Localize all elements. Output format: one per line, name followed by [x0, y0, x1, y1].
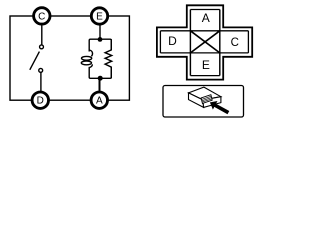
center box X diagonal 2	[190, 31, 219, 53]
wire box outline of relay internal circuit	[10, 16, 129, 100]
pin box grid horizontal top	[160, 30, 248, 32]
node junction dot bottom	[98, 76, 103, 81]
relay connector rib 2	[202, 98, 212, 101]
wire from E terminal down to node	[99, 25, 101, 39]
wire top branch bracket	[89, 39, 111, 51]
center box X diagonal 1	[190, 31, 219, 53]
wire from node down to A terminal	[99, 78, 101, 92]
pin box D left edge	[159, 31, 161, 53]
pin box grid vertical left	[189, 10, 191, 76]
connector pin-layout cross outer outline	[157, 5, 252, 79]
coil L1 loop 1	[82, 56, 92, 60]
relay connector rib 1	[202, 96, 212, 99]
switch SW1 top contact	[40, 45, 44, 49]
wire from switch down to D terminal	[40, 73, 42, 92]
wire from C terminal down to switch	[41, 25, 43, 44]
switch SW1 blade (open)	[30, 52, 40, 70]
pin box grid horizontal bottom	[160, 52, 248, 54]
coil L1 upper lead	[89, 50, 92, 56]
coil L1 loop 2	[81, 61, 91, 65]
svg-text:E: E	[96, 11, 103, 22]
relay 3D icon left face	[189, 93, 204, 108]
pin box C right edge	[247, 31, 249, 53]
svg-text:A: A	[96, 96, 103, 107]
svg-text:A: A	[202, 11, 210, 25]
coil L1 lower lead	[89, 64, 92, 68]
relay 3D icon right face	[203, 97, 221, 108]
terminal A	[91, 92, 107, 108]
resistor R1 zigzag	[105, 39, 112, 78]
svg-text:D: D	[168, 34, 177, 48]
svg-text:E: E	[202, 58, 210, 72]
terminal C	[34, 8, 50, 24]
svg-text:C: C	[231, 37, 239, 49]
pin box E bottom edge	[190, 75, 219, 77]
relay connector block outline	[201, 95, 212, 104]
node junction dot top	[98, 37, 103, 42]
terminal E	[91, 8, 107, 24]
relay location box	[163, 86, 244, 118]
relay connector rib 3	[202, 99, 212, 102]
svg-text:D: D	[37, 96, 44, 107]
relay 3D icon top face	[189, 87, 221, 100]
pin box A top edge	[190, 9, 219, 11]
terminal D	[32, 92, 48, 108]
svg-text:C: C	[38, 11, 45, 22]
wire bottom branch bracket	[89, 67, 111, 78]
pin box grid vertical right	[219, 10, 221, 76]
pointer arrow	[210, 101, 229, 114]
switch SW1 bottom contact	[39, 68, 43, 72]
